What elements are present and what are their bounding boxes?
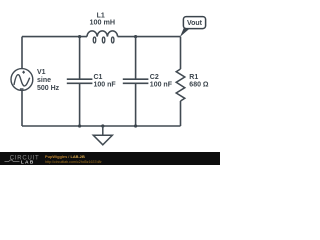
- wire right rail lower: [180, 101, 182, 126]
- svg-text:500 Hz: 500 Hz: [37, 85, 60, 92]
- wire C2 branch upper: [135, 37, 137, 80]
- svg-text:100 mH: 100 mH: [90, 18, 116, 27]
- wire C2 branch lower: [135, 83, 137, 126]
- capacitor C2: [123, 79, 149, 83]
- inductor L1: [87, 31, 118, 43]
- svg-text:Vout: Vout: [187, 20, 203, 27]
- svg-text:V1: V1: [37, 69, 46, 76]
- voltage source V1: [11, 69, 33, 91]
- svg-text:100 nF: 100 nF: [94, 82, 117, 89]
- svg-text:PupWiggles / LAB-2B: PupWiggles / LAB-2B: [45, 154, 85, 159]
- net flag Vout pointer: [180, 27, 190, 37]
- svg-text:100 nF: 100 nF: [150, 81, 173, 88]
- svg-text:R1: R1: [189, 74, 198, 81]
- node junction dot ground: [101, 124, 104, 127]
- wire C1 branch upper: [79, 37, 81, 80]
- svg-text:LAB: LAB: [21, 160, 35, 166]
- node junction dot C1 bottom: [78, 124, 81, 127]
- node junction dot C1 top: [78, 35, 81, 38]
- net flag Vout box: [183, 17, 205, 29]
- node junction dot C2 top: [134, 35, 137, 38]
- capacitor C1: [67, 79, 93, 83]
- wire top rail right segment: [118, 36, 181, 38]
- wire top rail left segment: [22, 36, 87, 38]
- svg-text:C1: C1: [94, 74, 103, 81]
- svg-text:sine: sine: [37, 77, 51, 84]
- node junction dot C2 bottom: [134, 124, 137, 127]
- wire right rail upper: [180, 37, 182, 69]
- wire left rail upper: [21, 37, 23, 69]
- resistor R1: [176, 69, 185, 101]
- svg-text:C2: C2: [150, 74, 159, 81]
- wire left rail lower: [21, 91, 23, 126]
- wire C1 branch lower: [79, 83, 81, 126]
- footer logo sine: [5, 160, 20, 162]
- svg-text:680 Ω: 680 Ω: [189, 81, 209, 88]
- svg-text:http://circuitlab.com/c2hd5z16: http://circuitlab.com/c2hd5z1637d8r: [45, 160, 103, 164]
- wire bottom rail: [22, 125, 181, 127]
- footer bar: [0, 152, 220, 165]
- ground: [93, 126, 112, 145]
